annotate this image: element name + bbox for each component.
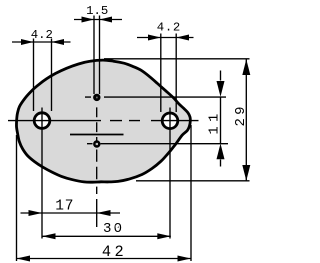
svg-text:17: 17 <box>55 199 74 215</box>
svg-text:4.2: 4.2 <box>31 28 53 42</box>
svg-text:4.2: 4.2 <box>157 21 181 35</box>
svg-text:1.5: 1.5 <box>86 4 108 18</box>
svg-text:30: 30 <box>103 221 124 237</box>
svg-text:42: 42 <box>102 243 127 261</box>
svg-text:11: 11 <box>208 109 223 134</box>
svg-text:29: 29 <box>233 103 249 126</box>
